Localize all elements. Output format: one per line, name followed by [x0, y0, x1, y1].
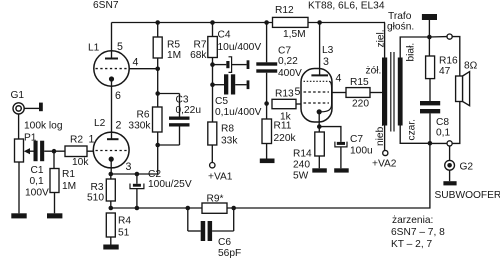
svg-text:C7: C7: [278, 46, 291, 57]
resistor R6: [153, 107, 163, 132]
junction secondary top: [427, 35, 432, 40]
L3 screen grid dashed line: [304, 91, 330, 93]
svg-text:R14: R14: [293, 148, 312, 159]
svg-text:L1: L1: [88, 43, 100, 54]
svg-text:C5: C5: [215, 96, 228, 107]
svg-text:510: 510: [87, 192, 104, 203]
svg-text:1M: 1M: [62, 181, 76, 192]
resistor R15: [332, 88, 382, 98]
node C1/R1/R2 junction: [52, 149, 57, 154]
L1 cathode dot: [109, 76, 114, 81]
L3 beam plate dotted line: [304, 80, 330, 82]
svg-text:KT – 2, 7: KT – 2, 7: [391, 239, 432, 250]
wire P1 bottom to ground: [18, 162, 20, 213]
P1 wiper arrow: [24, 148, 34, 154]
svg-text:6: 6: [115, 90, 121, 102]
svg-text:ziel.: ziel.: [375, 29, 386, 47]
svg-text:C7: C7: [350, 134, 363, 145]
svg-text:0,1: 0,1: [436, 128, 450, 139]
connector G2: [445, 146, 455, 181]
svg-text:3: 3: [126, 161, 132, 173]
svg-text:biał.: biał.: [406, 43, 417, 62]
svg-text:nieb.: nieb.: [375, 124, 386, 146]
triode L2: [93, 132, 129, 168]
wire L1 plate lead: [111, 23, 113, 59]
wire junction to output terminal: [429, 36, 447, 38]
capacitor C7 (100u): [319, 127, 347, 169]
terminal output circle: [447, 34, 452, 39]
svg-text:R5: R5: [167, 40, 180, 51]
capacitor C7 (0,22): [256, 20, 277, 103]
L2 cathode dot: [109, 157, 114, 162]
wire top B+ rail: [112, 22, 386, 24]
capacitor C4: [210, 57, 246, 73]
svg-text:100u/25V: 100u/25V: [148, 179, 192, 190]
wire R5 bottom to node A: [157, 58, 159, 69]
svg-text:R8: R8: [221, 124, 234, 135]
resistor R16: [426, 37, 435, 101]
svg-text:C6: C6: [218, 237, 231, 248]
ground stub G1: [39, 103, 43, 112]
resistor R3: [106, 174, 115, 208]
wire R6 top: [157, 94, 159, 108]
svg-text:czar.: czar.: [407, 119, 418, 141]
resistor R13: [272, 99, 302, 108]
svg-text:G1: G1: [11, 90, 25, 101]
ground bar secondary top: [422, 14, 437, 20]
svg-text:400V: 400V: [278, 68, 302, 79]
svg-text:żół.: żół.: [366, 66, 382, 77]
wire R6 bottom to node C: [157, 132, 159, 145]
L1 plate bar: [105, 58, 118, 60]
svg-text:R13: R13: [275, 89, 294, 100]
svg-text:C4: C4: [218, 30, 231, 41]
svg-text:R16: R16: [439, 56, 458, 67]
capacitor C8: [420, 101, 440, 143]
svg-text:100k log: 100k log: [24, 120, 63, 131]
ground bar R14: [312, 168, 327, 172]
svg-text:5: 5: [117, 41, 123, 53]
svg-text:220: 220: [352, 98, 369, 109]
ground bar C7: [334, 168, 349, 172]
wire R2 to L2 grid: [87, 150, 93, 152]
svg-text:R6: R6: [136, 110, 149, 121]
svg-text:6SN7 – 7, 8: 6SN7 – 7, 8: [391, 227, 445, 238]
svg-text:100u: 100u: [350, 146, 373, 157]
svg-text:5: 5: [295, 86, 301, 98]
svg-text:4: 4: [133, 57, 139, 69]
svg-text:R2: R2: [70, 135, 83, 146]
svg-text:0,1u/400V: 0,1u/400V: [215, 107, 262, 118]
resistor R14: [315, 127, 325, 169]
junction rail R5: [155, 20, 160, 25]
svg-text:G2: G2: [460, 162, 474, 173]
wire speaker bottom return: [452, 102, 460, 144]
L2 grid dashed line: [96, 150, 128, 152]
svg-text:+VA1: +VA1: [208, 172, 233, 183]
wire G1 to ground stub: [24, 107, 39, 109]
resistor R11: [262, 104, 272, 159]
wire output to speaker top: [452, 37, 460, 76]
resistor R12: [273, 17, 309, 27]
resistor R4: [106, 213, 115, 245]
svg-text:R1: R1: [62, 169, 75, 180]
transformer secondary winding: [398, 58, 403, 126]
pentode L3: [301, 69, 332, 123]
svg-text:C8: C8: [436, 117, 449, 128]
junction rail R7: [210, 20, 215, 25]
wire R8 to +VA1: [211, 145, 213, 163]
svg-text:C3: C3: [176, 95, 189, 106]
svg-text:głośn.: głośn.: [387, 21, 414, 32]
capacitor C1: [34, 141, 66, 162]
ground bar R11: [260, 159, 275, 164]
node L3 cathode junction: [317, 124, 322, 129]
svg-text:56pF: 56pF: [218, 248, 241, 259]
wire L3 plate lead: [319, 23, 321, 76]
node C junction: [155, 143, 160, 148]
wire primary bottom to +VA2: [384, 126, 386, 151]
svg-text:2: 2: [116, 120, 122, 132]
capacitor C5: [210, 74, 246, 94]
svg-text:R9*: R9*: [207, 193, 224, 204]
resistor R7: [208, 37, 218, 58]
wire R5 top: [157, 23, 159, 38]
svg-text:1: 1: [89, 134, 95, 146]
L3 cathode dot: [317, 109, 322, 114]
capacitor C6: [188, 208, 234, 241]
node output feedback junction: [428, 141, 433, 146]
wire feedback line: [111, 143, 430, 208]
svg-text:330k: 330k: [128, 121, 151, 132]
wire R7 top: [212, 23, 214, 37]
cathode node junction: [109, 172, 114, 177]
node B junction: [155, 91, 160, 96]
svg-text:10k: 10k: [72, 157, 89, 168]
capacitor C2: [130, 172, 144, 208]
resistor R2: [65, 146, 87, 157]
wire node A down to node B: [157, 69, 159, 94]
svg-text:0,22: 0,22: [278, 56, 298, 67]
terminal +VA1: [210, 163, 215, 168]
svg-text:4: 4: [336, 73, 342, 85]
svg-text:SUBWOOFER: SUBWOOFER: [435, 190, 500, 201]
L2 plate bar: [107, 138, 119, 140]
ground stub C4: [247, 60, 250, 69]
wire R7 bottom to R8: [212, 58, 214, 123]
ground stub C5: [247, 80, 250, 89]
svg-text:8Ω: 8Ω: [464, 61, 478, 72]
speaker: [456, 72, 470, 106]
ground bar G2: [443, 181, 456, 185]
svg-text:1M: 1M: [167, 50, 181, 61]
svg-text:R12: R12: [275, 5, 294, 16]
svg-text:100V: 100V: [25, 187, 49, 198]
transformer primary winding: [382, 58, 387, 126]
svg-text:47: 47: [439, 66, 451, 77]
resistor R1: [50, 151, 59, 213]
svg-text:Trafo: Trafo: [388, 11, 412, 22]
resistor R5: [153, 37, 162, 58]
ground bar R4: [103, 245, 118, 250]
L3 beam plate to cathode curve: [322, 81, 332, 112]
svg-text:6SN7: 6SN7: [93, 0, 119, 11]
connector G1: [13, 103, 24, 114]
junction R9 left: [186, 206, 191, 211]
svg-text:51: 51: [118, 227, 130, 238]
svg-text:0,1: 0,1: [30, 176, 44, 187]
wire L1 grid to node A: [129, 68, 158, 70]
svg-text:0,22u: 0,22u: [176, 105, 202, 116]
L1 grid dashed line: [96, 68, 130, 70]
node C7/R13/R11 junction: [264, 101, 269, 106]
wire L2 cathode down: [110, 159, 112, 174]
resistor R9*: [202, 203, 227, 213]
svg-text:C1: C1: [31, 165, 44, 176]
svg-text:R15: R15: [350, 77, 369, 88]
wire rail to primary top: [384, 23, 386, 58]
wire node C down to cathode line: [111, 145, 158, 174]
svg-text:R7: R7: [193, 40, 206, 51]
wire L1 cathode to L2 plate: [111, 79, 113, 139]
terminal +VA2: [383, 150, 388, 155]
svg-text:R3: R3: [90, 182, 103, 193]
junction R9 right: [231, 206, 236, 211]
svg-text:3: 3: [323, 56, 329, 68]
terminal return circle: [447, 141, 452, 146]
svg-text:R4: R4: [118, 216, 131, 227]
ground bar P1: [11, 213, 26, 218]
svg-text:10u/400V: 10u/400V: [218, 42, 262, 53]
junction rail L3: [317, 20, 322, 25]
svg-text:1,5M: 1,5M: [283, 29, 306, 40]
L3 plate bar: [311, 74, 328, 76]
svg-text:żarzenia:: żarzenia:: [392, 215, 433, 226]
node R3/R4 feedback junction: [109, 206, 114, 211]
node A junction: [155, 67, 160, 72]
triode L1: [94, 51, 129, 86]
wire ground stem: [428, 20, 430, 37]
wire return to junction: [430, 142, 447, 144]
wire G1 down to P1: [18, 114, 20, 139]
svg-text:L3: L3: [322, 45, 334, 56]
svg-text:240: 240: [293, 159, 310, 170]
capacitor C3: [158, 94, 190, 146]
svg-text:68k: 68k: [190, 50, 207, 61]
svg-text:KT88, 6L6, EL34: KT88, 6L6, EL34: [308, 1, 385, 12]
junction C2 bottom: [135, 206, 140, 211]
wire secondary bottom (czar.): [400, 126, 430, 144]
svg-text:R11: R11: [274, 121, 292, 132]
svg-text:220k: 220k: [274, 133, 297, 144]
wire L3 cathode down: [318, 112, 320, 127]
svg-text:5W: 5W: [293, 170, 309, 181]
ground bar R1: [47, 213, 62, 218]
svg-text:33k: 33k: [221, 136, 238, 147]
svg-text:L2: L2: [94, 118, 106, 129]
potentiometer P1: [15, 139, 24, 162]
L3 control grid dashed line: [304, 102, 330, 104]
transformer core: [391, 52, 394, 132]
svg-text:+VA2: +VA2: [372, 159, 397, 170]
resistor R8: [208, 122, 217, 145]
wire secondary top: [400, 37, 429, 58]
